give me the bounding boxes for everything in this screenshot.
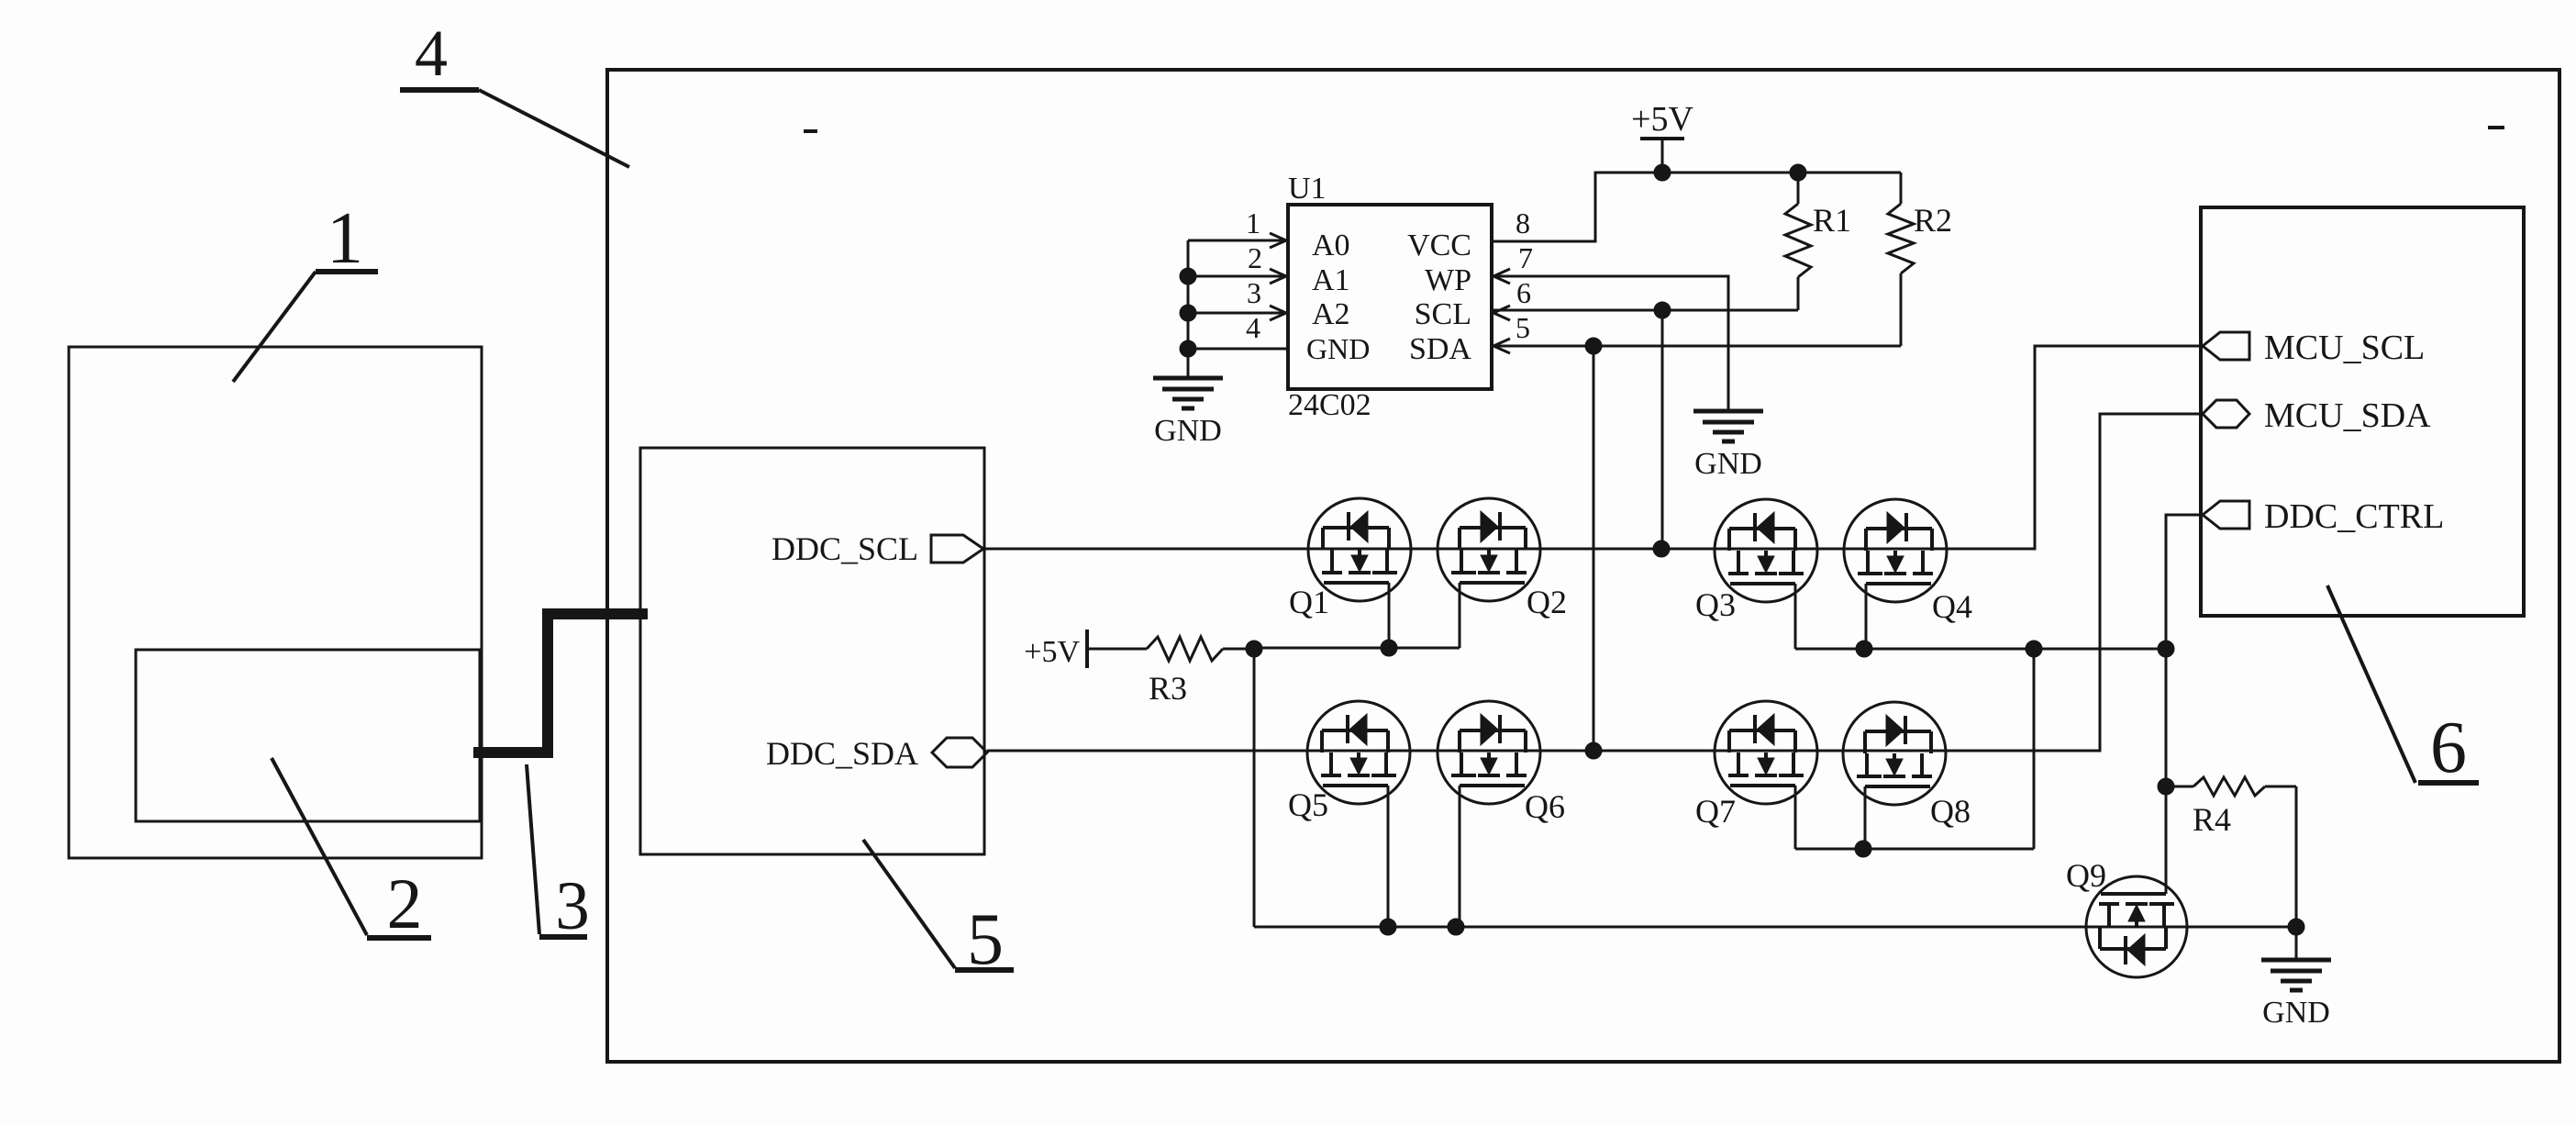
wire VCC pin8 to +5V rail (1492, 173, 1901, 241)
label 5 underline (955, 967, 1014, 973)
Q6 label (1525, 788, 1565, 825)
label 6 underline (2418, 780, 2479, 786)
svg-text:U1: U1 (1288, 172, 1327, 206)
svg-text:Q5: Q5 (1288, 786, 1328, 823)
DDC_SDA pin label (766, 735, 918, 772)
+5V power symbol (R3) (1024, 630, 1087, 669)
DDC_CTRL pin label (2264, 497, 2444, 536)
svg-text:DDC_SCL: DDC_SCL (772, 530, 918, 567)
U1 pin name A1 (1312, 263, 1350, 297)
svg-text:5: 5 (1516, 311, 1530, 344)
transistor Q6 (1438, 701, 1540, 804)
label 6 leader line (2327, 585, 2415, 783)
block 6: MCU box (2201, 207, 2524, 616)
wire WP pin7 to ground (1492, 276, 1728, 411)
U1 pin name SDA (1409, 332, 1471, 366)
svg-text:DDC_CTRL: DDC_CTRL (2264, 497, 2444, 536)
Q9 label (2066, 857, 2106, 894)
wire R4 right vertical (2295, 786, 2298, 960)
svg-text:1: 1 (327, 198, 363, 279)
wire SDA pin5 to R2 (1492, 345, 1901, 348)
svg-text:4: 4 (1246, 311, 1260, 344)
Q2 label (1527, 584, 1567, 620)
ground symbol U1 (1153, 349, 1223, 448)
thick DDC cable wire (item 3) (473, 614, 648, 753)
label 6 digit (2430, 708, 2467, 788)
svg-text:8: 8 (1516, 206, 1530, 240)
svg-text:VCC: VCC (1407, 229, 1471, 262)
junction Q6 gate (1448, 919, 1464, 935)
Q2 gate lead (1459, 583, 1461, 648)
DDC_CTRL pin symbol (2203, 501, 2249, 529)
junction A1 bus (1180, 268, 1196, 284)
junction R1 top (1790, 164, 1806, 181)
label 1 underline (316, 269, 378, 274)
wire U1 pin3 A2 (1188, 312, 1288, 315)
wire U1 address bus vertical (1187, 240, 1190, 380)
wire DDC_SCL row (row 1) (983, 346, 2203, 549)
DDC_SCL pin symbol (931, 535, 983, 563)
junction Q4 gate (1856, 641, 1872, 657)
U1 pin number 7 (1518, 241, 1533, 274)
junction R3 node (1246, 641, 1262, 657)
wire U1 pin1 A0 (1188, 240, 1288, 242)
junction Q5 gate (1380, 919, 1396, 935)
svg-text:7: 7 (1518, 241, 1533, 274)
svg-text:+5V: +5V (1024, 635, 1080, 669)
svg-text:MCU_SCL: MCU_SCL (2264, 329, 2425, 367)
Q6 gate lead (1459, 786, 1461, 927)
U1 part number 24C02 (1288, 388, 1371, 422)
Q3 label (1695, 586, 1736, 623)
transistor Q5 (1307, 701, 1410, 804)
transistor Q4 (1844, 499, 1947, 602)
block 4: switching-circuit board outline (607, 70, 2559, 1062)
svg-text:6: 6 (1516, 276, 1531, 309)
svg-text:6: 6 (2430, 708, 2467, 788)
U1 designator (1288, 172, 1327, 206)
label 1 digit (327, 198, 363, 279)
label 4 digit (415, 17, 448, 90)
svg-text:DDC_SDA: DDC_SDA (766, 735, 918, 772)
wire gate bus row2 right (1795, 848, 2034, 851)
label 5 digit (967, 899, 1004, 980)
U1 pin name WP (1425, 263, 1471, 297)
svg-text:GND: GND (1154, 414, 1222, 448)
R4 value label (2193, 801, 2231, 838)
label 3 digit (555, 868, 590, 944)
wire U1 pin2 A1 (1188, 275, 1288, 278)
pin6 arrowhead (1493, 306, 1510, 320)
svg-text:GND: GND (1306, 332, 1370, 365)
junction SCL bus tap (1654, 302, 1671, 318)
transistor Q1 (1308, 498, 1411, 601)
svg-text:R3: R3 (1149, 670, 1187, 707)
svg-text:Q8: Q8 (1930, 793, 1971, 830)
resistor R1 (1785, 173, 1811, 310)
DDC_SDA pin symbol (932, 738, 987, 767)
label 2 digit (387, 864, 423, 943)
junction SDA row tap (1585, 742, 1602, 759)
U1 pin number 6 (1516, 276, 1531, 309)
U1 pin name A0 (1312, 229, 1350, 262)
block 2: video card box inside block 1 (136, 650, 480, 821)
svg-text:A1: A1 (1312, 263, 1350, 297)
svg-text:Q2: Q2 (1527, 584, 1567, 620)
scan artifact dashes top middle (804, 129, 817, 133)
junction gate bus connector top (2026, 641, 2042, 657)
pin1 arrowhead (1270, 233, 1286, 248)
svg-text:2: 2 (1248, 241, 1262, 274)
U1 pin number 8 (1516, 206, 1530, 240)
label 2 leader line (272, 758, 367, 935)
svg-text:Q4: Q4 (1932, 588, 1972, 625)
junction Q9 drain GND node (2288, 919, 2304, 935)
label 1 leader line (233, 272, 316, 382)
wire gate bus row1 left (1254, 647, 1460, 650)
U1 pin name VCC (1407, 229, 1471, 262)
transistor Q3 (1715, 499, 1817, 602)
transistor Q9 (2086, 876, 2187, 977)
Q5 gate lead (1387, 786, 1390, 927)
svg-text:MCU_SDA: MCU_SDA (2264, 396, 2431, 435)
label 3 underline (539, 934, 587, 940)
Q1 gate lead (1388, 583, 1391, 648)
MCU_SDA pin symbol (2203, 400, 2249, 428)
block 5: DDC connector box (640, 448, 984, 854)
Q4 label (1932, 588, 1972, 625)
svg-text:1: 1 (1246, 206, 1260, 240)
R1 value label (1813, 202, 1851, 239)
svg-text:SCL: SCL (1415, 297, 1471, 331)
resistor R2 (1888, 173, 1914, 346)
svg-text:A2: A2 (1312, 297, 1350, 331)
U1 pin number 2 (1248, 241, 1262, 274)
svg-text:WP: WP (1425, 263, 1471, 297)
Q5 label (1288, 786, 1328, 823)
transistor Q7 (1715, 701, 1817, 804)
MCU_SCL pin symbol (2203, 332, 2249, 360)
svg-text:3: 3 (555, 868, 590, 944)
svg-text:Q9: Q9 (2066, 857, 2106, 894)
label 5 leader line (863, 840, 955, 968)
wire SCL pin6 to R1 (1492, 309, 1798, 312)
scan artifact dash top right (2488, 126, 2504, 129)
svg-text:2: 2 (387, 864, 423, 943)
U1 pin number 3 (1247, 276, 1261, 309)
U1 pin name A2 (1312, 297, 1350, 331)
wire gate bus connector vertical (2033, 649, 2036, 849)
pin7 arrowhead (1493, 269, 1510, 284)
junction +5V rail tap (1654, 164, 1671, 181)
junction SCL row tap (1653, 541, 1670, 557)
U1 pin name GND (1306, 332, 1370, 365)
svg-text:Q7: Q7 (1695, 793, 1736, 830)
U1 pin number 5 (1516, 311, 1530, 344)
label 2 underline (367, 935, 431, 941)
Q7 label (1695, 793, 1736, 830)
svg-text:A0: A0 (1312, 229, 1350, 262)
svg-text:SDA: SDA (1409, 332, 1471, 366)
wire SCL vertical bus (1661, 310, 1664, 548)
Q3 gate lead (1794, 584, 1797, 649)
svg-text:GND: GND (2262, 996, 2330, 1030)
pin5 arrowhead (1493, 339, 1510, 353)
svg-text:R2: R2 (1914, 202, 1952, 239)
wire DDC_SDA row (row 2) (987, 414, 2203, 751)
wire +5V to R3 (1087, 648, 1147, 651)
transistor Q2 (1438, 498, 1540, 601)
resistor R4 (2166, 777, 2296, 796)
resistor R3 (1147, 637, 1223, 661)
MCU_SCL pin label (2264, 329, 2425, 367)
junction Q8 gate (1855, 841, 1871, 857)
Q8 gate lead (1864, 786, 1867, 849)
svg-text:3: 3 (1247, 276, 1261, 309)
junction DDC_CTRL gate bus (2158, 641, 2174, 657)
R3 value label (1149, 670, 1187, 707)
Q4 gate lead (1865, 584, 1868, 649)
wire bottom gate bus (1254, 926, 2296, 929)
junction GND bus (1180, 340, 1196, 357)
U1 pin number 4 (1246, 311, 1260, 344)
Q8 label (1930, 793, 1971, 830)
label 4 leader line (479, 90, 629, 167)
R2 value label (1914, 202, 1952, 239)
block 1: host computer box (69, 347, 482, 858)
wire R3 to gate node (1223, 648, 1254, 651)
ground symbol Q9 (2261, 931, 2331, 1030)
junction R4 left (2158, 778, 2174, 795)
pin3 arrowhead (1270, 306, 1286, 320)
junction SDA bus tap (1585, 338, 1602, 354)
svg-text:Q1: Q1 (1289, 584, 1329, 620)
DDC_SCL pin label (772, 530, 918, 567)
svg-text:R1: R1 (1813, 202, 1851, 239)
wire DDC_CTRL vertical (2166, 515, 2203, 894)
svg-text:Q6: Q6 (1525, 788, 1565, 825)
svg-text:R4: R4 (2193, 801, 2231, 838)
wire U1 pin4 GND (1188, 348, 1288, 351)
svg-text:+5V: +5V (1631, 100, 1693, 139)
+5V power symbol (top) (1631, 100, 1693, 173)
svg-text:24C02: 24C02 (1288, 388, 1371, 422)
U1 pin name SCL (1415, 297, 1471, 331)
pin2 arrowhead (1270, 269, 1286, 284)
svg-text:GND: GND (1694, 447, 1762, 481)
ground symbol WP (1693, 382, 1763, 481)
label 3 leader line (527, 764, 539, 934)
svg-text:Q3: Q3 (1695, 586, 1736, 623)
label 4 underline (400, 87, 479, 93)
Q1 label (1289, 584, 1329, 620)
U1 pin number 1 (1246, 206, 1260, 240)
U1 EEPROM chip body (1288, 205, 1492, 389)
MCU_SDA pin label (2264, 396, 2431, 435)
svg-text:4: 4 (415, 17, 448, 90)
wire SDA vertical bus (1593, 346, 1595, 751)
junction Q1 gate (1381, 640, 1397, 656)
wire R3 node vertical (1253, 649, 1256, 927)
junction A2 bus (1180, 305, 1196, 321)
wire gate bus row1 right (1795, 648, 2166, 651)
transistor Q8 (1843, 702, 1946, 805)
Q7 gate lead (1794, 786, 1797, 849)
